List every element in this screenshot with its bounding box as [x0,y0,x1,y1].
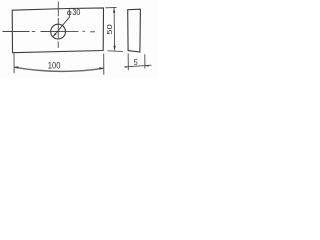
arrowhead left of 100 [14,66,19,68]
arrowhead right of 100 [99,67,103,69]
extension line right of 100 dimension [103,54,105,75]
svg-text:50: 50 [105,24,114,34]
side view plate outline [128,9,141,52]
hole circle Φ30 [51,24,66,39]
extension line top of 50 dimension [105,7,116,9]
front view plate outline [12,8,103,53]
dimension line 5 [125,65,152,67]
svg-text:5: 5 [134,57,138,67]
svg-text:30: 30 [72,8,81,17]
vertical centerline [57,2,59,48]
leader arrowhead [53,33,57,37]
arrowhead left of 5 (pointing right) [125,66,129,68]
horizontal centerline [3,30,96,33]
extension line right of 5 dimension [144,54,146,68]
phi symbol of Φ30 [68,9,71,16]
dimension line 100 [14,67,103,71]
extension line bottom of 50 dimension [108,50,124,53]
arrowhead bottom of 50 [113,46,115,51]
leader line for Φ30 [53,17,70,37]
dimension line 50 [113,8,116,50]
extension line left of 5 dimension [127,53,129,70]
arrowhead right of 5 (pointing left) [145,65,149,67]
extension line left of 100 dimension [13,53,15,73]
arrowhead top of 50 [113,8,115,13]
svg-text:100: 100 [48,60,61,70]
